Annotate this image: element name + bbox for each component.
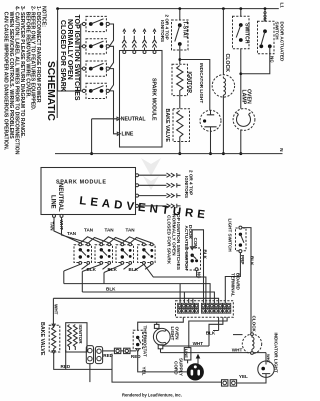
svg-text:BLK: BLK xyxy=(108,267,118,272)
svg-text:CLOSED FOR SPARK: CLOSED FOR SPARK xyxy=(59,20,66,92)
svg-text:BAKE VALVE: BAKE VALVE xyxy=(164,109,170,143)
svg-text:YEL: YEL xyxy=(239,374,248,379)
spark module box (wiring diagram) xyxy=(41,168,136,215)
node bus left xyxy=(90,152,93,155)
ignitor (schematic) xyxy=(172,64,192,95)
svg-text:YEL: YEL xyxy=(142,367,147,376)
svg-text:NEUTRAL: NEUTRAL xyxy=(121,117,147,123)
svg-text:LIGHT: LIGHT xyxy=(170,327,175,341)
square connector pair xyxy=(114,348,130,353)
wire door switch NC to lamp feed xyxy=(241,46,270,73)
clock (wiring) xyxy=(242,333,261,355)
bake valve (schematic) xyxy=(164,109,189,143)
svg-text:OVEN: OVEN xyxy=(175,327,180,341)
terminal line (tan) xyxy=(53,214,56,217)
neutral terminal label xyxy=(117,117,120,120)
wire light switch prp xyxy=(225,253,240,304)
ignition switch row 3 (schematic) xyxy=(82,61,109,76)
svg-text:THERMOSTAT: THERMOSTAT xyxy=(143,326,148,357)
svg-text:TAN: TAN xyxy=(84,228,94,233)
svg-text:WHT: WHT xyxy=(232,348,243,353)
svg-text:COM: COM xyxy=(193,238,198,249)
node L1 clock xyxy=(222,7,225,10)
svg-text:WHT: WHT xyxy=(54,304,59,315)
svg-text:INDICATOR LIGHT: INDICATOR LIGHT xyxy=(199,63,204,103)
L1 bus xyxy=(58,8,279,10)
wire tan cascade xyxy=(101,237,130,243)
schematic title underline xyxy=(56,61,58,119)
svg-text:IGNITOR: IGNITOR xyxy=(78,325,83,345)
svg-text:CLOCK: CLOCK xyxy=(224,54,230,73)
svg-text:BLK: BLK xyxy=(106,287,116,292)
wire blk drop switch 4 xyxy=(134,264,151,270)
wire blk drop switch 2 xyxy=(82,264,109,271)
svg-text:COM: COM xyxy=(263,11,268,22)
neutral bus (schematic bottom) xyxy=(55,153,283,155)
svg-text:CORD: CORD xyxy=(174,361,179,375)
ignitor output wire and gap xyxy=(136,193,181,197)
line label box xyxy=(184,348,191,360)
terminal board terminals xyxy=(178,303,231,313)
ignitor assembly (wiring) xyxy=(66,323,87,352)
t-stat T1 xyxy=(172,20,189,50)
wire switch row 3 output cascade xyxy=(109,69,113,91)
connector block 2 xyxy=(95,347,102,364)
wire ignitor to bake valve xyxy=(179,96,181,109)
wire blk drop switch 3 xyxy=(104,264,130,283)
svg-text:BLK: BLK xyxy=(129,267,139,272)
ignitor output wire and gap xyxy=(136,204,181,208)
wire switch row 4 output to line terminal xyxy=(109,91,116,134)
wire bake valve to bus xyxy=(179,142,181,154)
wire board to blk clock feed xyxy=(213,317,219,330)
node bus indicator xyxy=(209,152,212,155)
ignition switch 1 (wiring) xyxy=(74,243,92,264)
node L1 t-stat xyxy=(178,7,181,10)
wire L1 to switch feed xyxy=(58,9,83,91)
node bus bake valve xyxy=(178,152,181,155)
top ignition switches label (wiring) xyxy=(166,211,182,271)
wire neutral down to bus xyxy=(91,119,93,154)
ignition switch 2 (wiring) xyxy=(95,243,113,264)
svg-text:SUPPLY: SUPPLY xyxy=(178,358,183,376)
spark module box (schematic) xyxy=(120,51,163,148)
wire oven lamp to bus xyxy=(240,130,242,154)
svg-text:WHT: WHT xyxy=(193,341,204,346)
wire wht to bake valve xyxy=(52,298,54,324)
bake valve coil (wiring) xyxy=(49,324,60,353)
wire blk drop switch 1 xyxy=(64,264,88,271)
svg-text:L1: L1 xyxy=(280,3,285,9)
supply cord plug xyxy=(187,363,204,380)
svg-text:BLK: BLK xyxy=(87,267,97,272)
svg-text:CAN CAUSE IMPROPER AND DANGERO: CAN CAUSE IMPROPER AND DANGEROUS OPERATI… xyxy=(3,6,9,151)
ignition switch row 4 (schematic) xyxy=(82,83,109,98)
wire wht to indicator xyxy=(265,353,267,361)
ignition switch row 1 (schematic) xyxy=(82,16,109,31)
svg-text:LINE: LINE xyxy=(49,195,55,209)
door actuated switch (wiring) xyxy=(184,225,203,303)
wire board to line box xyxy=(189,317,227,347)
ground arrow xyxy=(197,358,199,365)
bottom connector squares xyxy=(222,380,237,386)
wire square connector to thermostat xyxy=(121,350,136,352)
top ignition switches label (schematic) xyxy=(59,15,80,101)
wire blk vertical 2 xyxy=(81,272,83,293)
node L1 switch xyxy=(239,7,242,10)
wire clock feed horizontal xyxy=(233,334,243,336)
svg-text:T-STAT: T-STAT xyxy=(181,21,187,39)
svg-text:2 OR 4 TOP: 2 OR 4 TOP xyxy=(189,170,194,195)
svg-text:BAKE VALVE: BAKE VALVE xyxy=(39,322,45,356)
terminal neutral (wht) xyxy=(60,214,63,217)
wire harness feeds left group xyxy=(180,284,193,304)
harness line D xyxy=(144,264,206,303)
svg-text:PRP: PRP xyxy=(240,255,245,264)
wire feed to indicator light xyxy=(180,60,210,111)
node L1 left xyxy=(56,7,59,10)
svg-text:NORMALLY OPEN: NORMALLY OPEN xyxy=(66,19,73,80)
spark output terminal and gap xyxy=(142,29,146,53)
node bus lamp xyxy=(239,152,242,155)
svg-text:TAN: TAN xyxy=(126,228,136,233)
svg-text:DOOR: DOOR xyxy=(188,225,193,239)
watermark logo xyxy=(141,158,161,190)
svg-text:RED: RED xyxy=(131,354,141,359)
svg-text:LIGHT SWITCH: LIGHT SWITCH xyxy=(227,219,232,253)
wire switch row 1 output cascade xyxy=(109,24,113,46)
wire oven light top xyxy=(156,322,158,324)
ignition switch row 2 (schematic) xyxy=(82,39,109,54)
wire tan cascade xyxy=(122,237,152,243)
harness line A xyxy=(64,284,210,304)
wire L1 to t-stat xyxy=(179,9,181,20)
node bus clock xyxy=(222,152,225,155)
wire L1 to clock xyxy=(222,9,224,75)
wire tan cascade xyxy=(80,237,109,243)
tan labels xyxy=(67,228,135,236)
notes text block xyxy=(3,6,47,155)
svg-text:IGNITORS: IGNITORS xyxy=(184,176,189,198)
wire connector to connector xyxy=(103,350,115,352)
wire t-stat to ignitor xyxy=(179,44,181,64)
svg-text:BOARD: BOARD xyxy=(235,273,240,291)
svg-text:CLOCK: CLOCK xyxy=(252,316,257,333)
wire board wht drop xyxy=(209,317,223,346)
wire tan feed xyxy=(54,217,88,243)
ignitor output wire and gap xyxy=(136,173,181,177)
line terminal label xyxy=(117,132,120,135)
svg-text:IGNITORS: IGNITORS xyxy=(160,20,165,42)
svg-text:BLK: BLK xyxy=(250,256,255,266)
harness line B xyxy=(82,292,214,303)
wire indicator light to bus xyxy=(210,131,212,153)
wire L1 to switch xyxy=(240,9,242,17)
wire switch to lamp xyxy=(240,49,242,109)
svg-text:LINE: LINE xyxy=(184,349,189,358)
switch S1 xyxy=(233,16,250,49)
svg-text:SWITCH: SWITCH xyxy=(243,23,249,44)
wire neutral feed xyxy=(92,118,117,120)
door actuated switch (schematic) xyxy=(258,7,285,63)
ignition switch 3 (wiring) xyxy=(116,243,134,264)
wire thermostat top hook xyxy=(138,317,184,330)
wire indicator to bottom bus xyxy=(237,377,266,383)
svg-text:TAN: TAN xyxy=(105,228,115,233)
ignition switch 4 (wiring) xyxy=(138,243,156,264)
spark output terminal and gap xyxy=(122,29,126,53)
harness line C (wht) xyxy=(53,298,218,303)
indicator light (wiring) xyxy=(258,361,274,377)
wire bake valve to red bus xyxy=(54,354,112,370)
svg-text:SWITCH: SWITCH xyxy=(275,22,280,41)
spark output terminal and gap xyxy=(132,29,136,53)
wire connector block 1 drop xyxy=(89,364,91,383)
svg-text:SCHEMATIC: SCHEMATIC xyxy=(45,61,56,121)
wire clock to bus xyxy=(222,97,224,154)
light switch (wiring) xyxy=(227,219,246,253)
wire oven light bottom wht xyxy=(160,349,162,353)
oven lamp (schematic) xyxy=(233,109,255,131)
svg-text:2 OR 4 TOP: 2 OR 4 TOP xyxy=(165,15,170,40)
oven light (wiring) xyxy=(153,324,179,348)
node ignitor feed xyxy=(178,58,181,61)
wire ignitor to red bus xyxy=(65,350,67,369)
svg-text:LINE: LINE xyxy=(122,132,134,138)
ignitor output wire and gap xyxy=(136,183,181,187)
wire light switch blk to clock xyxy=(242,228,251,334)
svg-text:SPARK MODULE: SPARK MODULE xyxy=(151,78,157,121)
wire thermostat bottom yel xyxy=(138,352,187,372)
connector block 1 xyxy=(86,346,93,364)
wire switch row 2 output cascade xyxy=(109,46,113,68)
svg-text:BLK: BLK xyxy=(206,331,216,336)
wire blk vertical 1 xyxy=(63,271,65,284)
svg-text:OVEN: OVEN xyxy=(246,89,252,104)
wht line to clock xyxy=(161,346,267,353)
svg-text:TOP IGNITION SWITCHES: TOP IGNITION SWITCHES xyxy=(175,211,181,271)
thermostat (wiring) xyxy=(133,326,148,357)
svg-text:IGNITOR: IGNITOR xyxy=(186,72,192,94)
svg-text:TOP IGNITION SWITCHES: TOP IGNITION SWITCHES xyxy=(73,15,80,101)
svg-text:NC: NC xyxy=(197,272,202,279)
svg-text:TERMINAL: TERMINAL xyxy=(231,273,236,297)
blk labels xyxy=(87,267,139,272)
clock motor (schematic) xyxy=(212,75,234,97)
spark output terminal and gap xyxy=(152,29,156,53)
terminal board box xyxy=(176,301,234,318)
node lamp feed xyxy=(239,72,242,75)
indicator light lamp (schematic) xyxy=(200,110,221,131)
left collector wire xyxy=(81,24,83,91)
wire connector drop to bus xyxy=(112,354,222,383)
svg-text:TAN: TAN xyxy=(67,231,77,236)
svg-text:BLK: BLK xyxy=(203,250,208,260)
svg-text:Rendered by LeadVenture, Inc.: Rendered by LeadVenture, Inc. xyxy=(122,393,182,398)
wire line box to plug xyxy=(187,360,189,363)
svg-text:NEUTRAL: NEUTRAL xyxy=(57,183,63,212)
